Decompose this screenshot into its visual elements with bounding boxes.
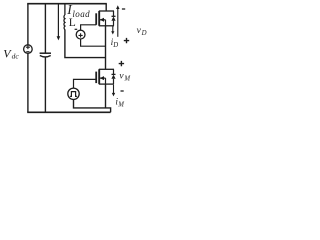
wire capacitor branch bottom [44,57,46,112]
svg-text:D: D [112,42,118,49]
wire capacitor branch top [44,4,46,53]
current arrow Iload [57,5,61,41]
svg-text:dc: dc [12,51,20,60]
wire switch node [105,26,107,70]
minus sign vM [121,90,124,92]
wire left branch top [27,4,29,45]
wire pulse source return [74,100,111,113]
wire pulse source to gate [74,79,97,88]
current arrow iM [112,85,115,97]
voltage source Vdc [24,45,33,54]
wire upper driver bottom [81,39,106,46]
wire upper driver to gate [81,25,97,30]
voltage arrow vD [116,5,119,37]
wire top rail [27,3,107,5]
svg-text:D: D [141,30,147,37]
minus sign upper driver [75,28,78,30]
wire lower MOSFET source [105,84,107,108]
gate bias source upper [76,30,85,39]
transistor upper MOSFET [96,11,114,26]
pulse source gate driver [68,88,79,99]
svg-text:M: M [123,75,130,82]
inductor L [63,15,66,30]
wire top right drop [105,4,107,11]
diode body upper [111,11,115,26]
svg-text:L: L [69,17,76,29]
capacitor C [40,53,51,57]
wire inductor top [64,4,66,15]
transistor lower MOSFET [96,69,114,84]
wire inductor bottom [65,29,106,57]
wire left branch bottom [27,53,29,112]
plus sign vM [119,61,124,66]
svg-text:M: M [117,101,124,108]
minus sign vD [122,8,125,10]
current arrow iD [111,26,114,34]
plus sign vD [124,38,129,43]
wire bottom rail [27,111,110,113]
diode body lower [111,69,115,84]
